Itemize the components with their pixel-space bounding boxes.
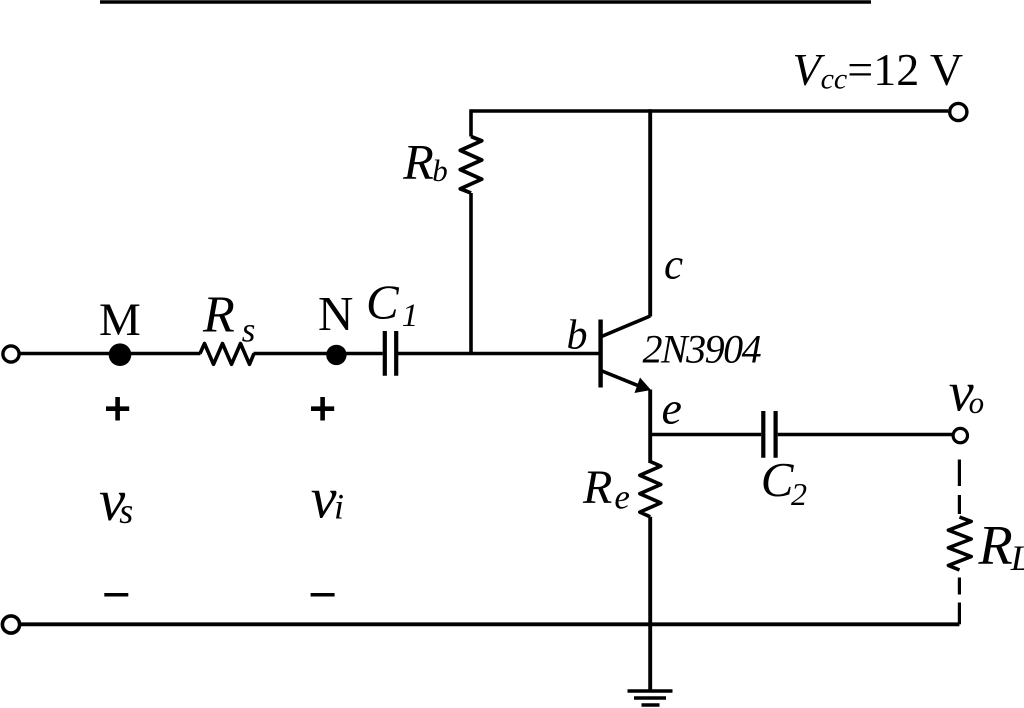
svg-text:Rb: Rb	[402, 134, 448, 190]
svg-text:Re: Re	[582, 461, 630, 517]
svg-text:b: b	[567, 312, 588, 358]
svg-text:N: N	[318, 286, 353, 341]
svg-text:M: M	[99, 294, 141, 346]
svg-text:2N3904: 2N3904	[643, 327, 762, 372]
svg-text:Rs: Rs	[202, 286, 255, 349]
svg-text:c: c	[664, 242, 683, 289]
svg-text:Vcc=12 V: Vcc=12 V	[793, 44, 964, 96]
svg-text:vs: vs	[99, 467, 133, 533]
svg-text:vo: vo	[949, 361, 984, 423]
svg-text:C2: C2	[761, 452, 807, 512]
svg-text:e: e	[662, 383, 682, 434]
svg-text:C1: C1	[366, 274, 418, 334]
svg-text:vi: vi	[311, 466, 344, 531]
svg-text:RL: RL	[978, 515, 1024, 578]
